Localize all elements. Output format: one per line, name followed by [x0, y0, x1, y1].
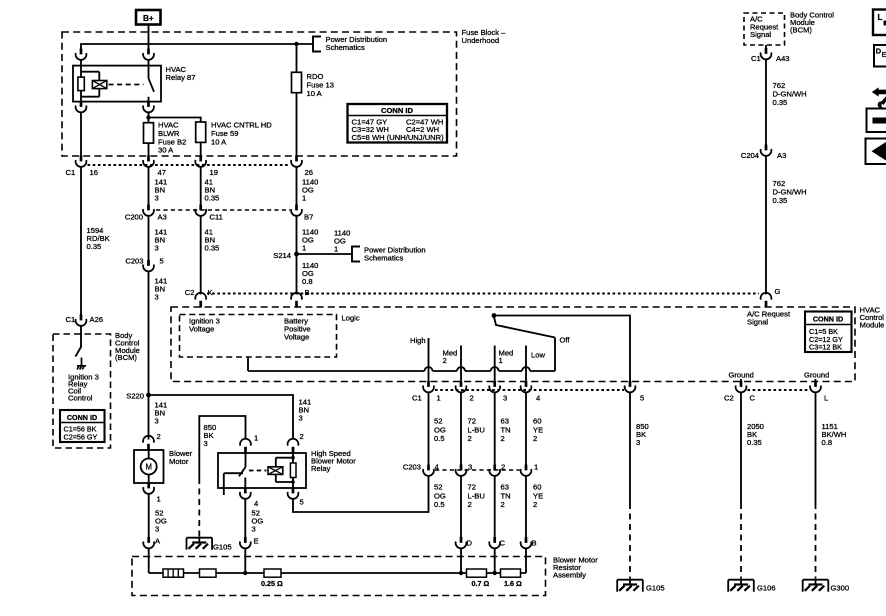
ground G105 (right): [617, 580, 643, 592]
svg-text:1: 1: [499, 356, 503, 365]
svg-text:C3=12 BK: C3=12 BK: [809, 343, 842, 352]
svg-text:3: 3: [155, 293, 159, 302]
thermal limiter (segmented box): [163, 569, 184, 577]
connector E: [240, 537, 251, 548]
svg-text:E: E: [254, 537, 259, 546]
connector 26: [291, 156, 302, 167]
svg-text:0.8: 0.8: [302, 277, 313, 286]
resistor assembly main wire: [149, 572, 526, 574]
connector row dotted (module bottom C1 pins): [435, 389, 624, 391]
wire 72 L-BU 2 (C1-2 to C203-3): [460, 392, 462, 465]
connector row dashed C203: [435, 469, 520, 471]
fuse HVAC BLWR Fuse B2 30A: [144, 123, 154, 143]
svg-text:3: 3: [468, 463, 472, 472]
svg-text:Control: Control: [68, 394, 93, 403]
fuse HVAC CNTRL HD Fuse 59 10A: [196, 122, 206, 142]
svg-text:A26: A26: [90, 315, 104, 324]
svg-text:CONN ID: CONN ID: [813, 315, 843, 324]
node junction C: [493, 571, 497, 575]
connector C203-1: [521, 465, 532, 476]
svg-text:CONN ID: CONN ID: [67, 413, 97, 422]
coil hatch symbol: [77, 358, 86, 370]
svg-text:C2: C2: [185, 288, 195, 297]
conn id table HVAC control module: [805, 312, 852, 353]
svg-text:B: B: [305, 288, 310, 297]
wire B+ down to bus: [148, 25, 150, 50]
svg-text:3: 3: [299, 414, 303, 423]
connector C2-K into module: [195, 293, 206, 308]
icon toolbar button 2 (D/E): [874, 45, 886, 67]
svg-text:L-BU: L-BU: [468, 491, 485, 500]
node splice S214: [294, 252, 299, 257]
svg-text:0.7 Ω: 0.7 Ω: [472, 579, 490, 588]
icon toolbar button minus: [867, 109, 886, 133]
wire 60 YE 2 (C1-4 to C203-1): [525, 392, 527, 465]
svg-text:1.6 Ω: 1.6 Ω: [504, 579, 522, 588]
svg-text:OG: OG: [434, 491, 446, 500]
svg-text:4: 4: [435, 463, 439, 472]
wire B into resistor assembly: [525, 548, 527, 573]
svg-text:3: 3: [636, 438, 640, 447]
connector C204-A3: [761, 145, 772, 156]
svg-text:2: 2: [533, 434, 537, 443]
svg-text:TN: TN: [501, 425, 511, 434]
wire D into resistor assembly: [460, 548, 462, 573]
svg-text:YE: YE: [533, 425, 543, 434]
connector B: [521, 537, 532, 548]
wire relay coil to C1-16 exit: [80, 112, 82, 156]
wire 52 OG 3 (blower to A): [148, 494, 150, 538]
svg-text:47: 47: [158, 168, 166, 177]
svg-text:L: L: [824, 394, 828, 403]
icon toolbar button back: [866, 139, 886, 165]
svg-text:2: 2: [533, 500, 537, 509]
svg-text:C204: C204: [741, 151, 759, 160]
relay 87 coil loop wiring: [81, 66, 99, 102]
wire main feed bus: [81, 44, 313, 49]
svg-text:Ground: Ground: [804, 371, 829, 380]
fuse RDO Fuse 13 10A drop wire: [296, 44, 298, 73]
resistor inside high speed relay: [290, 463, 296, 478]
connector relay 87 coil bottom: [76, 101, 87, 112]
svg-text:Voltage: Voltage: [284, 333, 309, 342]
node coil loop bottom: [291, 480, 295, 484]
wire fuse 59 to exit 19: [200, 142, 202, 156]
connector C1-A43: [761, 48, 772, 59]
wire 850 BK 3 from relay pin 1: [199, 416, 245, 478]
battery B+ terminal: [136, 10, 161, 25]
wire 41 BN 0.35 (C11 to K): [200, 216, 202, 295]
wire S220 branch to high speed relay: [149, 395, 294, 440]
ground G105 (left): [187, 538, 213, 550]
wire branch to fuse 59: [149, 118, 201, 122]
node junction feeding fuse 59: [146, 115, 150, 119]
connector row dotted (C2 / L grounds): [748, 389, 810, 391]
svg-text:B+: B+: [143, 14, 154, 23]
wire BCM to C1-A43: [765, 45, 767, 49]
wire into relay coil: [80, 60, 82, 66]
wire RDO fuse to exit 26: [296, 93, 298, 156]
svg-text:0.35: 0.35: [747, 438, 762, 447]
svg-text:1: 1: [302, 244, 306, 253]
svg-text:4: 4: [536, 394, 540, 403]
wire 1151 BK/WH 0.8 solid part: [815, 392, 817, 503]
svg-text:C200: C200: [125, 213, 143, 222]
svg-text:2: 2: [501, 434, 505, 443]
connector L: [810, 381, 821, 392]
connector C1-2: [456, 381, 467, 392]
connector C203-2: [489, 465, 500, 476]
hop over high wire: [425, 367, 433, 371]
wire 1151 BK/WH 0.8 dashed to ground: [815, 503, 817, 579]
connector D: [456, 537, 467, 548]
connector C1-5: [625, 381, 636, 392]
connector C2-C: [736, 381, 747, 392]
wire 60 YE 2 to B: [525, 476, 527, 538]
svg-text:0.35: 0.35: [773, 196, 788, 205]
svg-text:Ground: Ground: [729, 371, 754, 380]
body control module BCM (dashed box): [53, 334, 111, 448]
svg-text:C203: C203: [403, 463, 421, 472]
connector C203-5: [143, 260, 154, 271]
svg-text:0.35: 0.35: [205, 194, 220, 203]
wire E into resistor assembly: [244, 548, 246, 573]
svg-text:OG: OG: [434, 425, 446, 434]
connector C11: [195, 205, 206, 216]
connector relay switch pin (top): [143, 49, 154, 60]
svg-text:0.35: 0.35: [773, 98, 788, 107]
fuse block underhood (dashed box): [62, 32, 457, 156]
svg-text:26: 26: [305, 168, 313, 177]
svg-text:D: D: [467, 539, 473, 548]
coil (crossed box) high speed relay: [268, 467, 283, 475]
svg-text:16: 16: [90, 168, 98, 177]
resistor 0.25 ohm: [264, 569, 281, 577]
svg-text:Off: Off: [560, 336, 571, 345]
connector blower motor pin 2: [143, 436, 154, 451]
wire med 1 contact: [494, 346, 496, 382]
connector C1-16: [76, 156, 87, 167]
wire C into resistor assembly: [494, 548, 496, 573]
dashed actuating link high speed relay: [249, 470, 267, 472]
connector G into module: [761, 293, 772, 308]
svg-text:3: 3: [155, 194, 159, 203]
connector high speed relay pin 5: [288, 488, 299, 499]
wire fuse B2 to exit 47: [148, 143, 150, 156]
wire med 2 contact: [460, 346, 462, 382]
bracket power distribution reference (S214): [352, 247, 360, 262]
wire 41 BN 0.35 (19 to C11): [200, 167, 202, 205]
svg-text:4: 4: [254, 499, 258, 508]
svg-text:Signal: Signal: [747, 318, 768, 327]
connector B into module: [291, 293, 302, 308]
svg-text:TN: TN: [501, 491, 511, 500]
node junction E: [243, 571, 247, 575]
svg-text:2: 2: [468, 500, 472, 509]
svg-text:Underhood: Underhood: [462, 36, 500, 45]
svg-text:A3: A3: [158, 213, 167, 222]
svg-text:C5=8 WH (UNH/UNJ/UNR): C5=8 WH (UNH/UNJ/UNR): [352, 133, 445, 142]
wire 52 OG 0.5 (C203-4 to relay pin5): [293, 476, 429, 512]
logic box (dashed): [180, 315, 337, 358]
svg-text:C1: C1: [66, 168, 76, 177]
bracket power distribution reference: [313, 37, 321, 52]
svg-text:K: K: [208, 288, 213, 297]
wire 63 TN 2 to C: [494, 476, 496, 538]
high speed relay switch: [224, 453, 246, 495]
node switch wiper pivot: [492, 313, 497, 318]
svg-text:S214: S214: [273, 251, 291, 260]
node junction to RDO fuse: [294, 42, 298, 46]
connector 19: [195, 156, 206, 167]
svg-text:G106: G106: [757, 584, 776, 593]
connector relay 87 switch bottom: [143, 101, 154, 112]
svg-text:Schematics: Schematics: [364, 254, 403, 263]
svg-text:0.5: 0.5: [434, 500, 445, 509]
svg-text:3: 3: [252, 525, 256, 534]
resistor 1.6 ohm: [501, 569, 521, 577]
wire 762 D-GN/WH 0.35 (lower): [765, 156, 767, 295]
svg-text:1: 1: [534, 463, 538, 472]
svg-text:3: 3: [155, 417, 159, 426]
svg-text:B7: B7: [304, 213, 313, 222]
svg-text:72: 72: [468, 483, 476, 492]
svg-text:0.8: 0.8: [822, 438, 833, 447]
svg-text:60: 60: [533, 483, 541, 492]
wire into relay switch: [148, 60, 150, 66]
wire 63 TN 2 (C1-3 to C203-2): [494, 392, 496, 465]
svg-text:Relay 87: Relay 87: [166, 73, 196, 82]
wire 2050 BK 0.35 dashed to ground: [740, 503, 742, 579]
resistor inside relay 87 coil branch: [78, 77, 84, 91]
svg-text:52: 52: [434, 417, 442, 426]
svg-text:C2: C2: [724, 394, 734, 403]
svg-text:60: 60: [533, 417, 541, 426]
wire 72 L-BU 2 to D: [460, 476, 462, 538]
wire into BCM: [80, 326, 82, 334]
conn id table BCM: [60, 410, 105, 442]
wire 141 BN 3 (C200 to C203): [148, 216, 150, 261]
svg-text:High: High: [410, 336, 426, 345]
svg-text:G300: G300: [831, 584, 850, 593]
svg-text:2: 2: [443, 356, 447, 365]
wire 52 OG 3 (pin 4 to E): [244, 499, 246, 538]
wire logic output to switch common: [247, 357, 249, 371]
coil (crossed box) of relay 87: [92, 81, 106, 89]
switch contact of relay 87: [149, 66, 155, 102]
resistor 0.7 ohm: [467, 569, 487, 577]
ignition 3 relay coil control driver (switch blade): [76, 334, 82, 357]
node coil loop top: [291, 456, 295, 460]
HVAC control module (dashed box): [171, 307, 855, 382]
svg-text:2: 2: [501, 500, 505, 509]
ground label stubs: [741, 379, 816, 382]
blower motor M circle: [141, 459, 157, 475]
svg-text:52: 52: [434, 483, 442, 492]
wire high contact: [428, 338, 430, 382]
connector C1-1: [423, 381, 434, 392]
icon toolbar button 1 (zoom): [873, 10, 886, 36]
svg-text:10 A: 10 A: [211, 137, 227, 146]
connector C1-A26: [76, 315, 87, 326]
svg-text:0.25 Ω: 0.25 Ω: [261, 579, 283, 588]
switch wiper arm to Off: [494, 317, 555, 338]
svg-text:3: 3: [155, 525, 159, 534]
svg-text:2: 2: [468, 434, 472, 443]
wire wiper to pin 5: [494, 316, 630, 382]
svg-text:2: 2: [157, 432, 161, 441]
svg-text:(BCM): (BCM): [115, 353, 137, 362]
node junction D: [459, 571, 463, 575]
resistor element (unlabeled): [200, 569, 217, 577]
ground G300: [803, 580, 829, 592]
svg-text:B: B: [532, 539, 537, 548]
svg-text:C11: C11: [210, 213, 223, 222]
connector blower motor pin 1: [143, 483, 154, 494]
svg-text:Low: Low: [531, 351, 545, 360]
connector high speed relay pin 2: [288, 439, 299, 454]
connector C1-4: [521, 381, 532, 392]
svg-text:Voltage: Voltage: [189, 325, 214, 334]
node splice S220: [146, 393, 151, 398]
connector C203-4: [423, 465, 434, 476]
wire S214 branch to power distribution: [297, 253, 353, 255]
svg-text:1: 1: [437, 394, 441, 403]
svg-text:1: 1: [302, 194, 306, 203]
wire relay switch to fuses: [148, 112, 150, 122]
svg-text:C: C: [500, 539, 506, 548]
connector high speed relay pin 4: [240, 488, 251, 499]
wire 850 BK 3 dashed to G105 left: [198, 478, 200, 538]
svg-text:2: 2: [300, 432, 304, 441]
connector C200-A3: [143, 205, 154, 216]
svg-text:C2=56 GY: C2=56 GY: [64, 432, 98, 441]
svg-text:10 A: 10 A: [307, 89, 323, 98]
hop over med 2 wire: [457, 367, 465, 371]
connector row dashed (C200 A3 / C11 / B7): [156, 209, 290, 211]
svg-text:S220: S220: [126, 392, 144, 401]
svg-text:1: 1: [334, 245, 338, 254]
wire A into resistor assembly: [148, 548, 150, 573]
icon toolbar arrow and wrench: [872, 87, 886, 108]
wire 52 OG 0.5 (C1-1 to C203-4): [428, 392, 430, 465]
svg-text:E: E: [882, 50, 886, 59]
svg-text:G: G: [775, 287, 781, 296]
svg-text:1: 1: [254, 434, 258, 443]
wire 1594 RD/BK 0.35: [80, 167, 82, 315]
svg-text:0.35: 0.35: [87, 242, 102, 251]
connector C1-3: [489, 381, 500, 392]
svg-text:C: C: [750, 394, 756, 403]
wire 850 BK 3 dashed to ground: [629, 503, 631, 579]
A/C request signal BCM (dashed box): [744, 13, 785, 45]
wire 141 BN 3 (C203 to S220): [148, 271, 150, 439]
blower motor (box): [134, 450, 164, 483]
svg-text:19: 19: [210, 168, 218, 177]
wire 141 BN 3 (47 to C200): [148, 167, 150, 205]
ground G106: [728, 580, 754, 592]
wire switch common line with hops: [248, 370, 555, 372]
svg-text:63: 63: [501, 417, 509, 426]
wire 2050 BK 0.35 solid part: [740, 392, 742, 503]
svg-text:A43: A43: [776, 54, 790, 63]
svg-text:5: 5: [300, 498, 304, 507]
svg-text:3: 3: [155, 244, 159, 253]
svg-text:Schematics: Schematics: [326, 43, 365, 52]
svg-text:5: 5: [640, 394, 644, 403]
svg-text:Assembly: Assembly: [553, 571, 586, 580]
svg-text:3: 3: [204, 439, 208, 448]
svg-text:3: 3: [503, 394, 507, 403]
svg-text:L-BU: L-BU: [468, 425, 485, 434]
svg-text:2: 2: [470, 394, 474, 403]
svg-text:G105: G105: [646, 584, 665, 593]
connector high speed relay pin 1: [240, 439, 251, 454]
svg-text:C1: C1: [751, 54, 761, 63]
svg-text:(BCM): (BCM): [790, 26, 812, 35]
connector row dotted (module top K B G): [207, 293, 759, 295]
relay high speed blower motor relay (box): [218, 453, 306, 488]
svg-text:5: 5: [160, 257, 164, 266]
svg-text:L: L: [878, 13, 883, 22]
connector A: [143, 537, 154, 548]
svg-text:0.5: 0.5: [434, 434, 445, 443]
svg-text:A3: A3: [777, 151, 786, 160]
wire 1140 OG 1 (26 to B7): [296, 167, 298, 205]
svg-text:G105: G105: [213, 543, 232, 552]
svg-text:CONN ID: CONN ID: [381, 106, 414, 115]
conn id table fuse block: [348, 104, 448, 143]
blower motor resistor assembly (dashed box): [132, 557, 546, 596]
svg-text:C1: C1: [412, 394, 422, 403]
svg-text:Relay: Relay: [311, 464, 331, 473]
svg-text:Signal: Signal: [750, 30, 771, 39]
hop over low wire: [522, 367, 530, 371]
connector C203-3: [456, 465, 467, 476]
svg-text:Logic: Logic: [342, 314, 360, 323]
svg-text:YE: YE: [533, 491, 543, 500]
svg-text:2: 2: [501, 463, 505, 472]
svg-text:C203: C203: [125, 257, 143, 266]
connector 47: [143, 156, 154, 167]
svg-text:0.35: 0.35: [205, 244, 220, 253]
svg-text:1: 1: [157, 495, 161, 504]
svg-text:72: 72: [468, 417, 476, 426]
svg-text:Motor: Motor: [169, 457, 189, 466]
svg-text:30 A: 30 A: [158, 146, 174, 155]
svg-text:63: 63: [501, 483, 509, 492]
wire off contact stub: [554, 338, 556, 372]
dashed actuating link relay 87: [109, 84, 144, 86]
connector C: [489, 537, 500, 548]
connector row dotted line (fuse block bottom): [88, 164, 291, 166]
relay HVAC Relay 87 (box): [73, 66, 161, 102]
high speed relay coil loop: [276, 453, 293, 488]
fuse RDO Fuse 13 10A: [292, 72, 302, 92]
wire 1140 OG (B7 to S214 to B): [296, 216, 298, 295]
svg-text:Module: Module: [860, 320, 885, 329]
wire 850 BK 3 (pin5 to G105) solid part: [629, 392, 631, 503]
connector relay coil pin (top left): [76, 49, 87, 60]
hop over med 1 wire: [491, 367, 499, 371]
wire low contact: [525, 346, 527, 382]
svg-text:C1: C1: [66, 315, 76, 324]
connector B7: [291, 205, 302, 216]
svg-text:M: M: [145, 463, 152, 472]
wire 762 D-GN/WH 0.35 (upper): [765, 59, 767, 145]
